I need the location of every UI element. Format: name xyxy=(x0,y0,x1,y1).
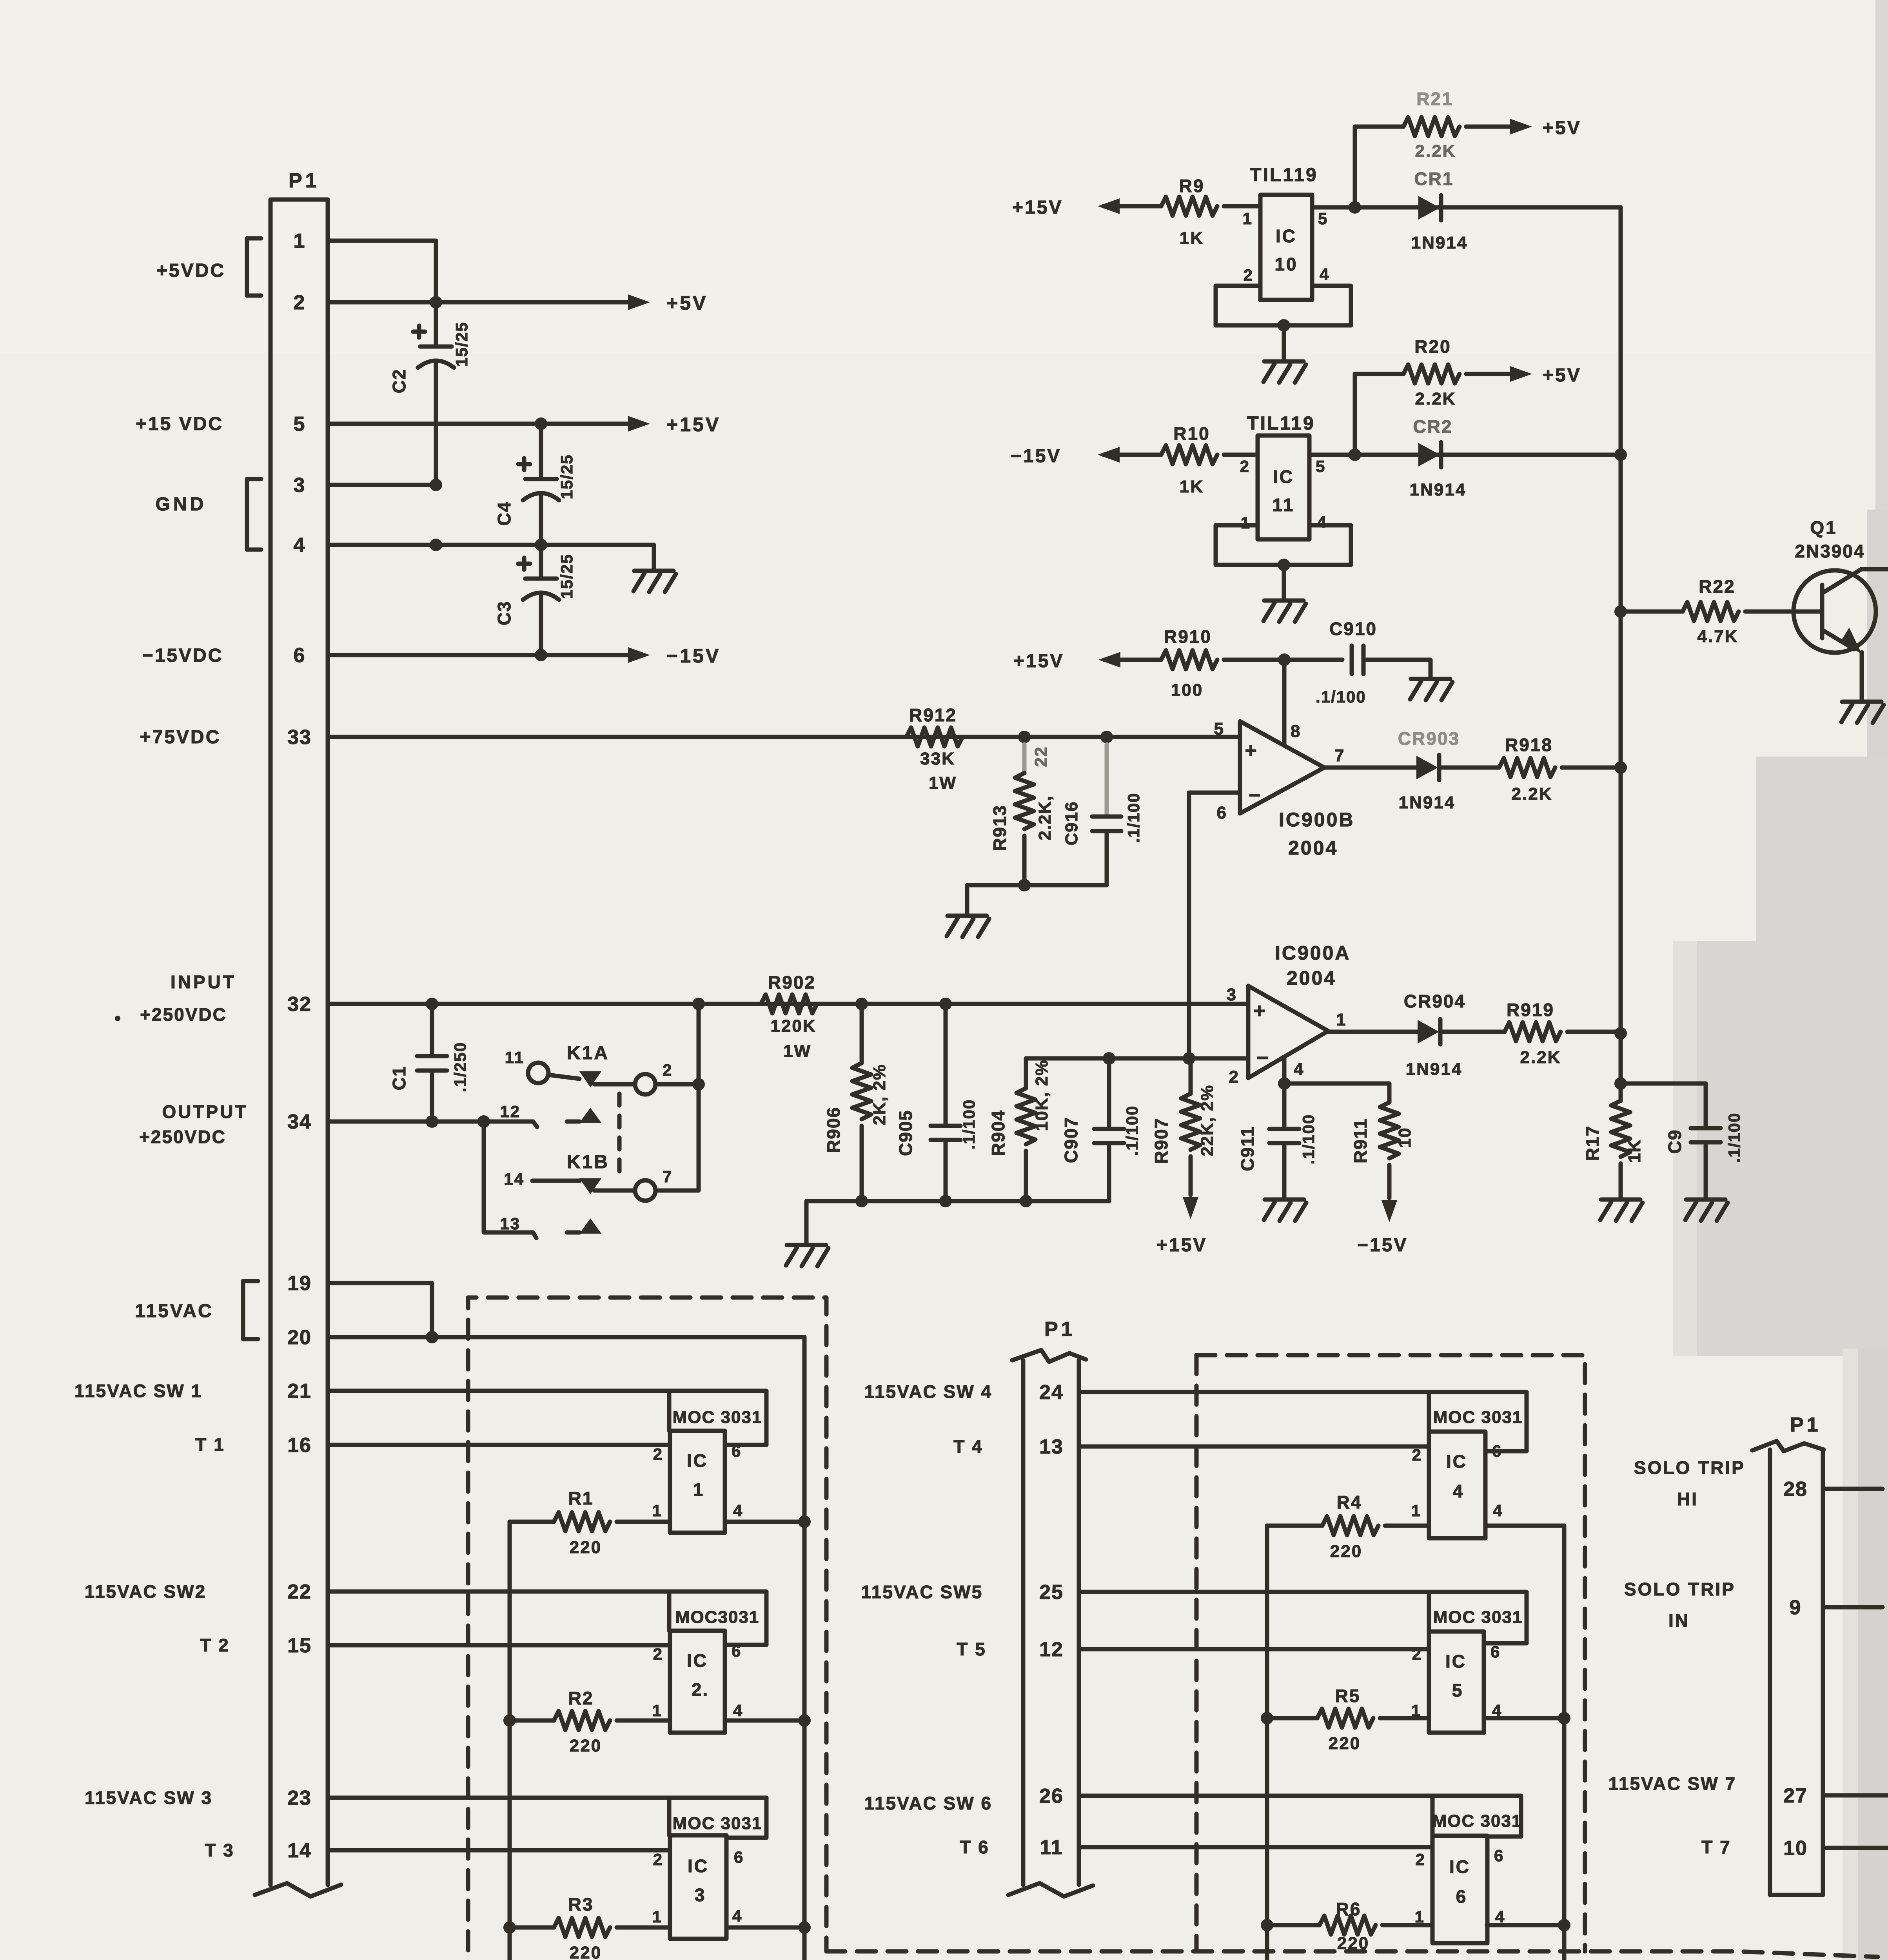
svg-text:2.2K: 2.2K xyxy=(1520,1048,1561,1067)
svg-text:2: 2 xyxy=(653,1850,663,1869)
wire pin 33 line (+75VDC to op-amp +) xyxy=(328,735,1240,739)
svg-text:220: 220 xyxy=(1330,1542,1362,1561)
svg-text:+15 VDC: +15 VDC xyxy=(136,414,223,434)
wire pin 27 xyxy=(1823,1793,1888,1798)
wire column 2 neutral vertical xyxy=(1562,1526,1567,1960)
svg-text:6: 6 xyxy=(1492,1442,1502,1460)
svg-text:34: 34 xyxy=(287,1111,312,1133)
scan gray band right xyxy=(1867,510,1888,768)
svg-text:R21: R21 xyxy=(1416,89,1453,109)
svg-text:T 3: T 3 xyxy=(205,1840,234,1860)
svg-text:115VAC SW 3: 115VAC SW 3 xyxy=(85,1788,212,1808)
svg-text:1K: 1K xyxy=(1180,229,1204,248)
capacitor C916 .1/100 xyxy=(1105,744,1109,817)
wire IC11 pin5 output xyxy=(1309,453,1621,457)
wire IC10 pin5 output xyxy=(1312,205,1621,210)
svg-text:K1A: K1A xyxy=(567,1043,609,1063)
svg-text:R10: R10 xyxy=(1173,423,1210,444)
wire T6 to IC6 pin2 xyxy=(1079,1845,1432,1849)
svg-text:2: 2 xyxy=(1416,1850,1426,1869)
svg-text:T 6: T 6 xyxy=(960,1837,989,1857)
resistor R912 33K 1W xyxy=(906,728,962,746)
wire IC2 pin4 xyxy=(725,1719,804,1723)
svg-text:IC: IC xyxy=(687,1450,708,1471)
wire pin 6 feedback xyxy=(1189,793,1240,1058)
wire pin 4 ground xyxy=(328,545,654,569)
svg-text:IC: IC xyxy=(688,1856,709,1876)
svg-text:.1/100: .1/100 xyxy=(1299,1114,1318,1165)
svg-text:2.2K,: 2.2K, xyxy=(1035,795,1055,840)
svg-text:115VAC SW 1: 115VAC SW 1 xyxy=(74,1381,202,1401)
svg-text:115VAC SW 7: 115VAC SW 7 xyxy=(1608,1773,1736,1794)
svg-text:6: 6 xyxy=(732,1442,742,1460)
svg-text:IC: IC xyxy=(1445,1651,1467,1671)
svg-text:1: 1 xyxy=(652,1701,663,1720)
svg-text:6: 6 xyxy=(734,1848,744,1866)
wire T2 to IC2 pin2 xyxy=(328,1643,670,1648)
svg-text:1W: 1W xyxy=(929,773,957,793)
svg-text:2: 2 xyxy=(294,291,306,314)
svg-text:11: 11 xyxy=(1273,495,1295,515)
wire IC1 pin4 xyxy=(725,1520,804,1524)
svg-text:19: 19 xyxy=(287,1272,312,1295)
svg-text:C3: C3 xyxy=(494,601,514,626)
wire IC4 pin4 xyxy=(1485,1524,1564,1528)
svg-text:−15V: −15V xyxy=(666,645,721,667)
resistor R21 2.2K xyxy=(1403,117,1460,136)
svg-text:4: 4 xyxy=(1453,1481,1464,1501)
svg-text:R910: R910 xyxy=(1164,626,1212,647)
svg-text:INPUT: INPUT xyxy=(171,972,236,992)
wire -15V arrow xyxy=(1098,447,1120,463)
svg-text:33: 33 xyxy=(287,726,312,749)
ground bracket IC11 pins 1-4 xyxy=(1216,525,1351,565)
diode CR904 1N914 xyxy=(1328,1030,1418,1034)
ground (IC11) xyxy=(1264,599,1303,603)
wire IC6 pin4 xyxy=(1487,1923,1564,1927)
wire pin 21 to IC1 pin6 xyxy=(328,1391,766,1445)
optocoupler IC5 MOC3031 xyxy=(1429,1632,1484,1733)
svg-text:3: 3 xyxy=(1227,985,1237,1004)
svg-text:+5V: +5V xyxy=(1543,365,1581,386)
svg-text:R912: R912 xyxy=(909,705,957,725)
svg-text:5: 5 xyxy=(1316,457,1326,475)
svg-text:4: 4 xyxy=(1320,265,1330,283)
wire pin 34 output line xyxy=(328,1122,537,1127)
svg-text:21: 21 xyxy=(287,1380,312,1403)
svg-text:4: 4 xyxy=(1493,1501,1503,1520)
svg-text:R5: R5 xyxy=(1335,1686,1361,1706)
svg-text:2.2K: 2.2K xyxy=(1415,389,1456,408)
optocoupler IC11 TIL119 xyxy=(1258,436,1309,539)
svg-text:R3: R3 xyxy=(568,1894,594,1915)
svg-text:+5VDC: +5VDC xyxy=(156,260,225,281)
optocoupler IC1 MOC3031 xyxy=(670,1431,725,1533)
svg-text:220: 220 xyxy=(1329,1734,1361,1753)
ground (Q1 emitter) xyxy=(1842,700,1881,704)
svg-text:8: 8 xyxy=(1291,722,1301,741)
svg-text:R904: R904 xyxy=(988,1110,1008,1156)
ground (R17) xyxy=(1601,1198,1640,1202)
svg-text:CR903: CR903 xyxy=(1398,728,1460,749)
svg-text:26: 26 xyxy=(1039,1785,1064,1808)
svg-text:10K, 2%: 10K, 2% xyxy=(1032,1060,1051,1131)
svg-text:1: 1 xyxy=(1241,514,1251,532)
wire IC3 pin4 xyxy=(726,1926,804,1930)
svg-text:24: 24 xyxy=(1039,1381,1064,1404)
svg-text:2: 2 xyxy=(1244,266,1254,284)
svg-text:IC: IC xyxy=(1276,226,1297,246)
svg-text:22: 22 xyxy=(1031,746,1051,767)
svg-text:R902: R902 xyxy=(768,972,816,993)
svg-text:5: 5 xyxy=(294,413,306,436)
wire pin 26 to IC6 pin6 xyxy=(1079,1796,1521,1837)
ground (filter bus) xyxy=(787,1243,826,1247)
resistor R3 220 xyxy=(510,1926,554,1930)
svg-text:T 7: T 7 xyxy=(1701,1837,1731,1857)
svg-text:+15V: +15V xyxy=(666,414,721,436)
bracket pins 19-20 xyxy=(243,1281,258,1339)
svg-text:1N914: 1N914 xyxy=(1399,793,1456,812)
svg-text:6: 6 xyxy=(1456,1886,1467,1907)
resistor R910 100 xyxy=(1161,650,1217,669)
svg-text:+: + xyxy=(1245,739,1258,762)
svg-text:100: 100 xyxy=(1171,681,1203,700)
svg-text:1: 1 xyxy=(294,230,306,252)
wire pin 28 xyxy=(1823,1487,1883,1491)
capacitor C911 .1/100 xyxy=(1282,1083,1287,1129)
wire gate bus column 2 xyxy=(1265,1526,1269,1960)
svg-text:220: 220 xyxy=(1337,1934,1369,1953)
svg-text:R4: R4 xyxy=(1337,1492,1362,1512)
wire pin 5 +15V xyxy=(328,422,627,426)
svg-text:T 5: T 5 xyxy=(957,1639,986,1659)
svg-text:R907: R907 xyxy=(1151,1118,1171,1164)
svg-text:CR2: CR2 xyxy=(1413,416,1452,437)
svg-text:R906: R906 xyxy=(823,1107,844,1153)
svg-text:1W: 1W xyxy=(783,1042,811,1061)
svg-text:MOC 3031: MOC 3031 xyxy=(673,1408,762,1427)
wire pin 22 to IC2 pin6 xyxy=(328,1592,766,1645)
svg-text:C910: C910 xyxy=(1329,619,1377,639)
svg-text:.1/100: .1/100 xyxy=(1725,1112,1743,1163)
svg-text:2: 2 xyxy=(1229,1067,1240,1087)
svg-text:4: 4 xyxy=(1294,1060,1304,1079)
svg-text:9: 9 xyxy=(1790,1596,1802,1619)
scan gray band mid right xyxy=(1756,757,1888,949)
svg-text:14: 14 xyxy=(287,1839,312,1862)
optocoupler IC10 TIL119 xyxy=(1260,195,1312,300)
resistor R919 2.2K xyxy=(1505,1022,1561,1041)
op-amp IC900B 2004 xyxy=(1240,721,1324,813)
svg-text:GND: GND xyxy=(156,494,207,515)
wire pin 23 to IC3 pin6 xyxy=(328,1798,766,1838)
svg-text:5: 5 xyxy=(1452,1680,1463,1700)
svg-text:4: 4 xyxy=(733,1501,743,1520)
mechanical link K1 (dashed) xyxy=(617,1094,622,1181)
svg-text:1: 1 xyxy=(693,1479,704,1500)
resistor R5 220 xyxy=(1267,1716,1317,1720)
svg-text:R20: R20 xyxy=(1414,336,1451,357)
svg-text:22K, 2%: 22K, 2% xyxy=(1198,1085,1217,1156)
svg-text:115VAC: 115VAC xyxy=(135,1301,213,1321)
svg-text:16: 16 xyxy=(287,1434,312,1457)
svg-text:IC900B: IC900B xyxy=(1279,809,1355,831)
svg-text:C9: C9 xyxy=(1665,1129,1685,1154)
svg-text:2.2K: 2.2K xyxy=(1415,142,1456,161)
scan gray band lower right xyxy=(1854,1348,1888,1960)
svg-text:2004: 2004 xyxy=(1287,967,1336,989)
svg-text:−: − xyxy=(1256,1047,1269,1069)
svg-text:R1: R1 xyxy=(568,1488,594,1508)
svg-text:MOC 3031: MOC 3031 xyxy=(1433,1408,1523,1427)
wire R910 to C910 xyxy=(1224,658,1342,662)
svg-text:1K: 1K xyxy=(1180,477,1204,496)
svg-text:22: 22 xyxy=(287,1581,312,1603)
svg-text:1: 1 xyxy=(652,1501,663,1520)
ground (C910) xyxy=(1411,677,1450,681)
svg-text:R17: R17 xyxy=(1582,1125,1603,1161)
svg-text:TIL119: TIL119 xyxy=(1247,413,1315,434)
connector P1 (main) xyxy=(270,200,328,1885)
wire to R22 xyxy=(1621,610,1683,614)
wire pin 32 input line xyxy=(328,1002,1248,1006)
svg-text:R919: R919 xyxy=(1507,1000,1554,1020)
svg-text:2: 2 xyxy=(653,1445,663,1463)
svg-text:HI: HI xyxy=(1677,1489,1698,1509)
resistor R17 1K xyxy=(1611,1101,1630,1157)
svg-text:15: 15 xyxy=(287,1634,312,1657)
wire minus input rail xyxy=(1026,1056,1248,1061)
svg-text:11: 11 xyxy=(1040,1836,1063,1859)
connector P1 (third) xyxy=(1770,1450,1823,1895)
svg-text:−: − xyxy=(1249,784,1262,807)
svg-text:10: 10 xyxy=(1274,254,1298,274)
svg-text:−15V: −15V xyxy=(1357,1235,1408,1256)
svg-text:MOC 3031: MOC 3031 xyxy=(673,1814,762,1833)
svg-text:2004: 2004 xyxy=(1288,837,1338,859)
svg-text:C905: C905 xyxy=(895,1110,916,1156)
svg-text:1K: 1K xyxy=(1625,1139,1644,1163)
resistor R20 2.2K xyxy=(1403,365,1460,383)
svg-text:3: 3 xyxy=(294,474,306,497)
svg-text:K1B: K1B xyxy=(567,1152,609,1172)
svg-text:IC: IC xyxy=(687,1650,708,1671)
wire pin 3 xyxy=(328,483,436,487)
svg-text:1: 1 xyxy=(652,1907,663,1926)
optocoupler IC3 MOC3031 xyxy=(670,1835,726,1939)
svg-text:28: 28 xyxy=(1783,1478,1808,1501)
svg-text:11: 11 xyxy=(505,1048,525,1067)
svg-text:−15VDC: −15VDC xyxy=(142,645,223,666)
svg-text:20: 20 xyxy=(287,1326,312,1349)
svg-text:2N3904: 2N3904 xyxy=(1795,541,1865,561)
dashed enclosure box 1 xyxy=(468,1298,826,1960)
svg-text:.1/100: .1/100 xyxy=(1316,688,1366,706)
svg-text:115VAC SW5: 115VAC SW5 xyxy=(861,1582,983,1602)
capacitor C1 .1/250 xyxy=(430,1004,434,1056)
svg-text:4.7K: 4.7K xyxy=(1697,627,1739,646)
svg-text:2.: 2. xyxy=(692,1679,709,1700)
wire pin 19 xyxy=(328,1283,432,1337)
wire column 1 neutral vertical xyxy=(802,1337,807,1960)
svg-text:IC: IC xyxy=(1446,1451,1467,1472)
wire pin 20 (115VAC neutral) xyxy=(328,1335,804,1339)
capacitor C9 .1/100 xyxy=(1621,1083,1706,1128)
resistor R22 4.7K xyxy=(1683,602,1739,621)
wire R21 branch xyxy=(1355,127,1403,207)
svg-text:R6: R6 xyxy=(1336,1899,1362,1919)
wire T1 to IC1 pin2 xyxy=(328,1443,670,1447)
dashed enclosure box 2 xyxy=(1196,1355,1585,1951)
svg-text:MOC 3031: MOC 3031 xyxy=(1432,1811,1522,1831)
optocoupler IC6 MOC3031 xyxy=(1432,1836,1487,1943)
svg-text:115VAC SW 4: 115VAC SW 4 xyxy=(864,1381,992,1402)
resistor R902 120K 1W xyxy=(761,995,817,1013)
resistor R911 10 xyxy=(1380,1102,1399,1158)
svg-text:1: 1 xyxy=(1336,1010,1347,1029)
svg-text:IC: IC xyxy=(1449,1857,1470,1877)
svg-text:12: 12 xyxy=(500,1102,521,1121)
svg-text:25: 25 xyxy=(1039,1581,1064,1604)
svg-text:220: 220 xyxy=(570,1943,602,1960)
svg-text:IN: IN xyxy=(1668,1610,1690,1631)
svg-text:R918: R918 xyxy=(1505,735,1553,755)
wire T4 to IC4 pin2 xyxy=(1079,1445,1429,1449)
wire R9 to IC10 pin1 xyxy=(1224,204,1260,209)
resistor R904 10K 2% xyxy=(1024,1058,1028,1088)
svg-text:2: 2 xyxy=(663,1061,673,1079)
svg-text:MOC 3031: MOC 3031 xyxy=(1433,1608,1523,1627)
svg-text:2: 2 xyxy=(1240,457,1250,475)
resistor R913 2.2K 2% xyxy=(1022,744,1027,773)
svg-text:T 1: T 1 xyxy=(195,1434,225,1455)
svg-text:6: 6 xyxy=(294,644,306,667)
wire +5V arrow (R21) xyxy=(1466,125,1510,129)
svg-text:7: 7 xyxy=(1334,746,1345,765)
wire T3 to IC3 pin2 xyxy=(328,1848,670,1853)
capacitor C3 15/25 xyxy=(539,545,543,579)
wire pin 6 -15V xyxy=(328,653,627,657)
svg-text:T 2: T 2 xyxy=(200,1635,229,1655)
capacitor C4 15/25 xyxy=(539,424,543,479)
resistor R9 1K xyxy=(1161,197,1217,216)
svg-text:6: 6 xyxy=(1490,1642,1501,1661)
svg-text:220: 220 xyxy=(570,1538,602,1557)
svg-text:C911: C911 xyxy=(1237,1126,1258,1171)
svg-text:.1/100: .1/100 xyxy=(960,1099,978,1150)
wire pin 1 to C2 node xyxy=(328,241,436,302)
svg-text:+75VDC: +75VDC xyxy=(140,727,221,748)
svg-text:P1: P1 xyxy=(289,169,320,192)
svg-text:3: 3 xyxy=(695,1885,706,1905)
resistor R10 1K xyxy=(1161,445,1217,464)
wire op-amp pin 8 xyxy=(1282,660,1287,745)
svg-text:4: 4 xyxy=(1317,513,1327,531)
svg-text:5: 5 xyxy=(1318,209,1328,228)
svg-text:15/25: 15/25 xyxy=(557,454,576,499)
svg-text:+15V: +15V xyxy=(1156,1235,1207,1256)
wire pin 2 +5V xyxy=(328,300,627,305)
ground (C911) xyxy=(1265,1198,1304,1202)
resistor R2 220 xyxy=(510,1719,554,1723)
svg-text:7: 7 xyxy=(663,1167,673,1186)
svg-text:12: 12 xyxy=(1039,1638,1064,1661)
diode CR903 1N914 xyxy=(1324,766,1416,770)
svg-text:1N914: 1N914 xyxy=(1410,480,1467,499)
svg-text:27: 27 xyxy=(1783,1784,1808,1807)
scan gray band top right edge xyxy=(1875,0,1888,525)
svg-text:C1: C1 xyxy=(389,1066,409,1091)
svg-text:115VAC SW 6: 115VAC SW 6 xyxy=(864,1793,992,1813)
wire pin 4 to R911 xyxy=(1284,1058,1389,1102)
dashed bottom edge xyxy=(826,1951,1878,1957)
svg-text:C2: C2 xyxy=(389,369,409,394)
wire IC5 pin4 xyxy=(1484,1716,1564,1720)
svg-text:R913: R913 xyxy=(989,805,1010,851)
svg-text:IC: IC xyxy=(1273,466,1294,487)
svg-text:4: 4 xyxy=(732,1907,742,1925)
wire +15V arrow xyxy=(1098,198,1120,214)
svg-text:2K, 2%: 2K, 2% xyxy=(870,1064,889,1125)
optocoupler IC2 MOC3031 xyxy=(670,1631,725,1733)
svg-text:MOC3031: MOC3031 xyxy=(675,1608,760,1627)
wire R20 branch xyxy=(1355,374,1403,455)
wire pin 24 to IC4 pin6 xyxy=(1079,1392,1527,1451)
svg-text:CR1: CR1 xyxy=(1414,169,1454,189)
svg-text:Q1: Q1 xyxy=(1810,517,1837,538)
bracket pins 1-2 xyxy=(247,238,261,296)
svg-text:R22: R22 xyxy=(1699,576,1735,597)
capacitor C905 .1/100 xyxy=(944,1004,948,1126)
resistor R6 220 xyxy=(1267,1923,1320,1927)
svg-text:1N914: 1N914 xyxy=(1406,1060,1463,1079)
wire pin 10 xyxy=(1823,1846,1888,1850)
svg-text:4: 4 xyxy=(733,1701,743,1720)
svg-text:10: 10 xyxy=(1783,1837,1808,1860)
svg-text:R9: R9 xyxy=(1179,176,1205,196)
svg-text:P1: P1 xyxy=(1790,1414,1821,1436)
svg-text:P1: P1 xyxy=(1044,1318,1076,1341)
svg-text:15/25: 15/25 xyxy=(452,321,471,367)
svg-text:.1/100: .1/100 xyxy=(1124,793,1143,843)
connector P1 (second) xyxy=(1023,1360,1079,1885)
svg-text:120K: 120K xyxy=(770,1016,816,1036)
bracket pins 3-4 xyxy=(247,479,261,550)
svg-text:SOLO TRIP: SOLO TRIP xyxy=(1624,1579,1736,1599)
wire +15V arrow (R910) xyxy=(1098,652,1120,668)
svg-text:+250VDC: +250VDC xyxy=(139,1127,226,1147)
svg-text:CR904: CR904 xyxy=(1404,991,1466,1011)
svg-text:R911: R911 xyxy=(1350,1118,1371,1163)
svg-text:IC900A: IC900A xyxy=(1275,942,1351,964)
svg-text:220: 220 xyxy=(570,1736,602,1755)
svg-text:SOLO TRIP: SOLO TRIP xyxy=(1634,1457,1745,1478)
wire pin 9 xyxy=(1823,1605,1883,1610)
svg-text:−15V: −15V xyxy=(1011,446,1061,466)
resistor R4 220 xyxy=(1267,1524,1322,1528)
svg-text:TIL119: TIL119 xyxy=(1250,165,1318,185)
svg-text:14: 14 xyxy=(504,1170,525,1188)
svg-text:+250VDC: +250VDC xyxy=(140,1004,227,1025)
ground (C9) xyxy=(1686,1198,1725,1202)
svg-text:C916: C916 xyxy=(1062,801,1081,845)
svg-text:+15V: +15V xyxy=(1012,197,1063,218)
wire R10 to IC11 pin2 xyxy=(1224,453,1258,457)
capacitor C907 .1/100 xyxy=(1107,1058,1111,1129)
svg-text:C907: C907 xyxy=(1061,1117,1081,1163)
svg-text:10: 10 xyxy=(1395,1127,1414,1148)
